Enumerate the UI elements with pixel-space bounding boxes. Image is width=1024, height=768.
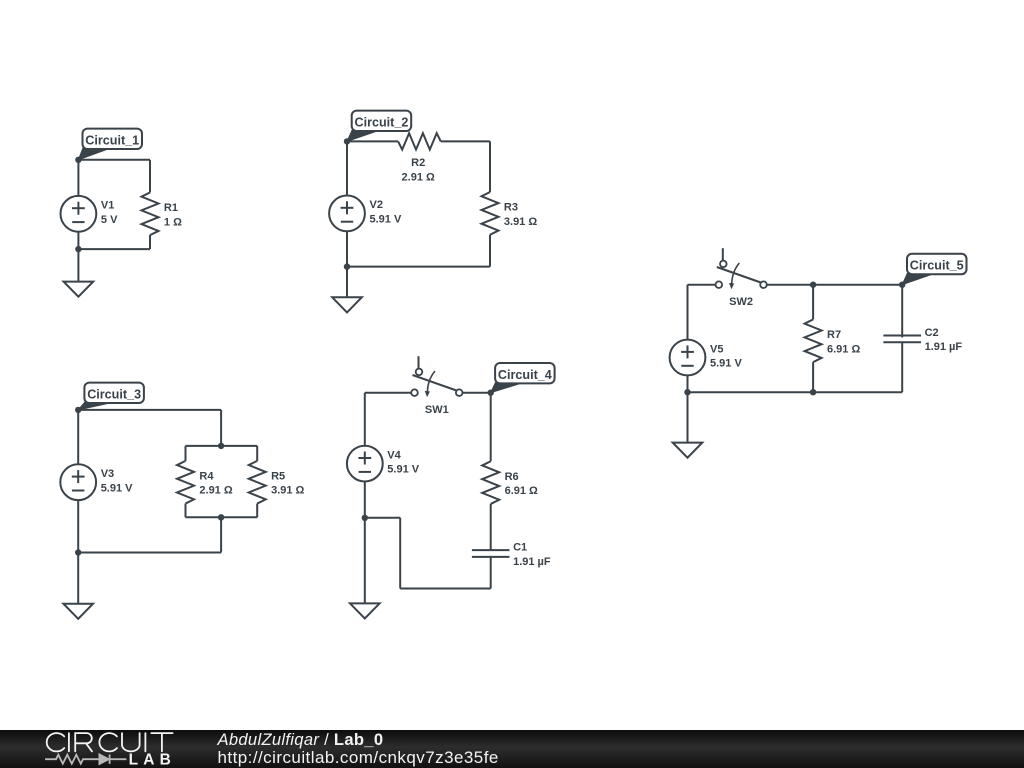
svg-text:AbdulZulfiqar / Lab_0: AbdulZulfiqar / Lab_0 [217,730,384,749]
svg-text:R3: R3 [504,202,518,214]
svg-text:6.91 Ω: 6.91 Ω [505,485,538,497]
svg-text:6.91 Ω: 6.91 Ω [827,343,860,355]
svg-text:R2: R2 [411,157,425,169]
svg-text:2.91 Ω: 2.91 Ω [402,171,435,183]
svg-text:3.91 Ω: 3.91 Ω [271,485,304,497]
svg-text:Circuit_2: Circuit_2 [354,115,408,129]
svg-text:1 Ω: 1 Ω [164,216,182,228]
svg-text:5.91 V: 5.91 V [710,358,742,370]
svg-text:R4: R4 [199,470,214,482]
svg-text:C1: C1 [513,542,527,554]
svg-text:R7: R7 [827,329,841,341]
svg-text:Circuit_5: Circuit_5 [910,259,964,273]
svg-text:5.91 V: 5.91 V [101,482,133,494]
svg-text:Circuit_1: Circuit_1 [85,133,139,147]
svg-text:Circuit_3: Circuit_3 [87,387,141,401]
svg-text:http://circuitlab.com/cnkqv7z3: http://circuitlab.com/cnkqv7z3e35fe [218,748,499,767]
svg-text:2.91 Ω: 2.91 Ω [199,485,232,497]
svg-text:5 V: 5 V [101,214,118,226]
svg-text:SW1: SW1 [425,404,449,416]
svg-text:1.91 µF: 1.91 µF [513,556,551,568]
svg-text:5.91 V: 5.91 V [387,464,419,476]
svg-text:R1: R1 [164,202,178,214]
svg-text:Circuit_4: Circuit_4 [498,368,552,382]
svg-text:3.91 Ω: 3.91 Ω [504,216,537,228]
svg-text:V3: V3 [101,468,114,480]
svg-text:1.91 µF: 1.91 µF [925,341,963,353]
svg-text:5.91 V: 5.91 V [370,214,402,226]
svg-text:R5: R5 [271,470,285,482]
svg-text:R6: R6 [505,471,519,483]
svg-text:C2: C2 [925,327,939,339]
svg-text:V1: V1 [101,200,114,212]
svg-text:LAB: LAB [129,752,176,768]
svg-text:V4: V4 [387,449,401,461]
svg-text:V2: V2 [370,199,383,211]
svg-text:SW2: SW2 [729,296,753,308]
svg-text:V5: V5 [710,343,723,355]
